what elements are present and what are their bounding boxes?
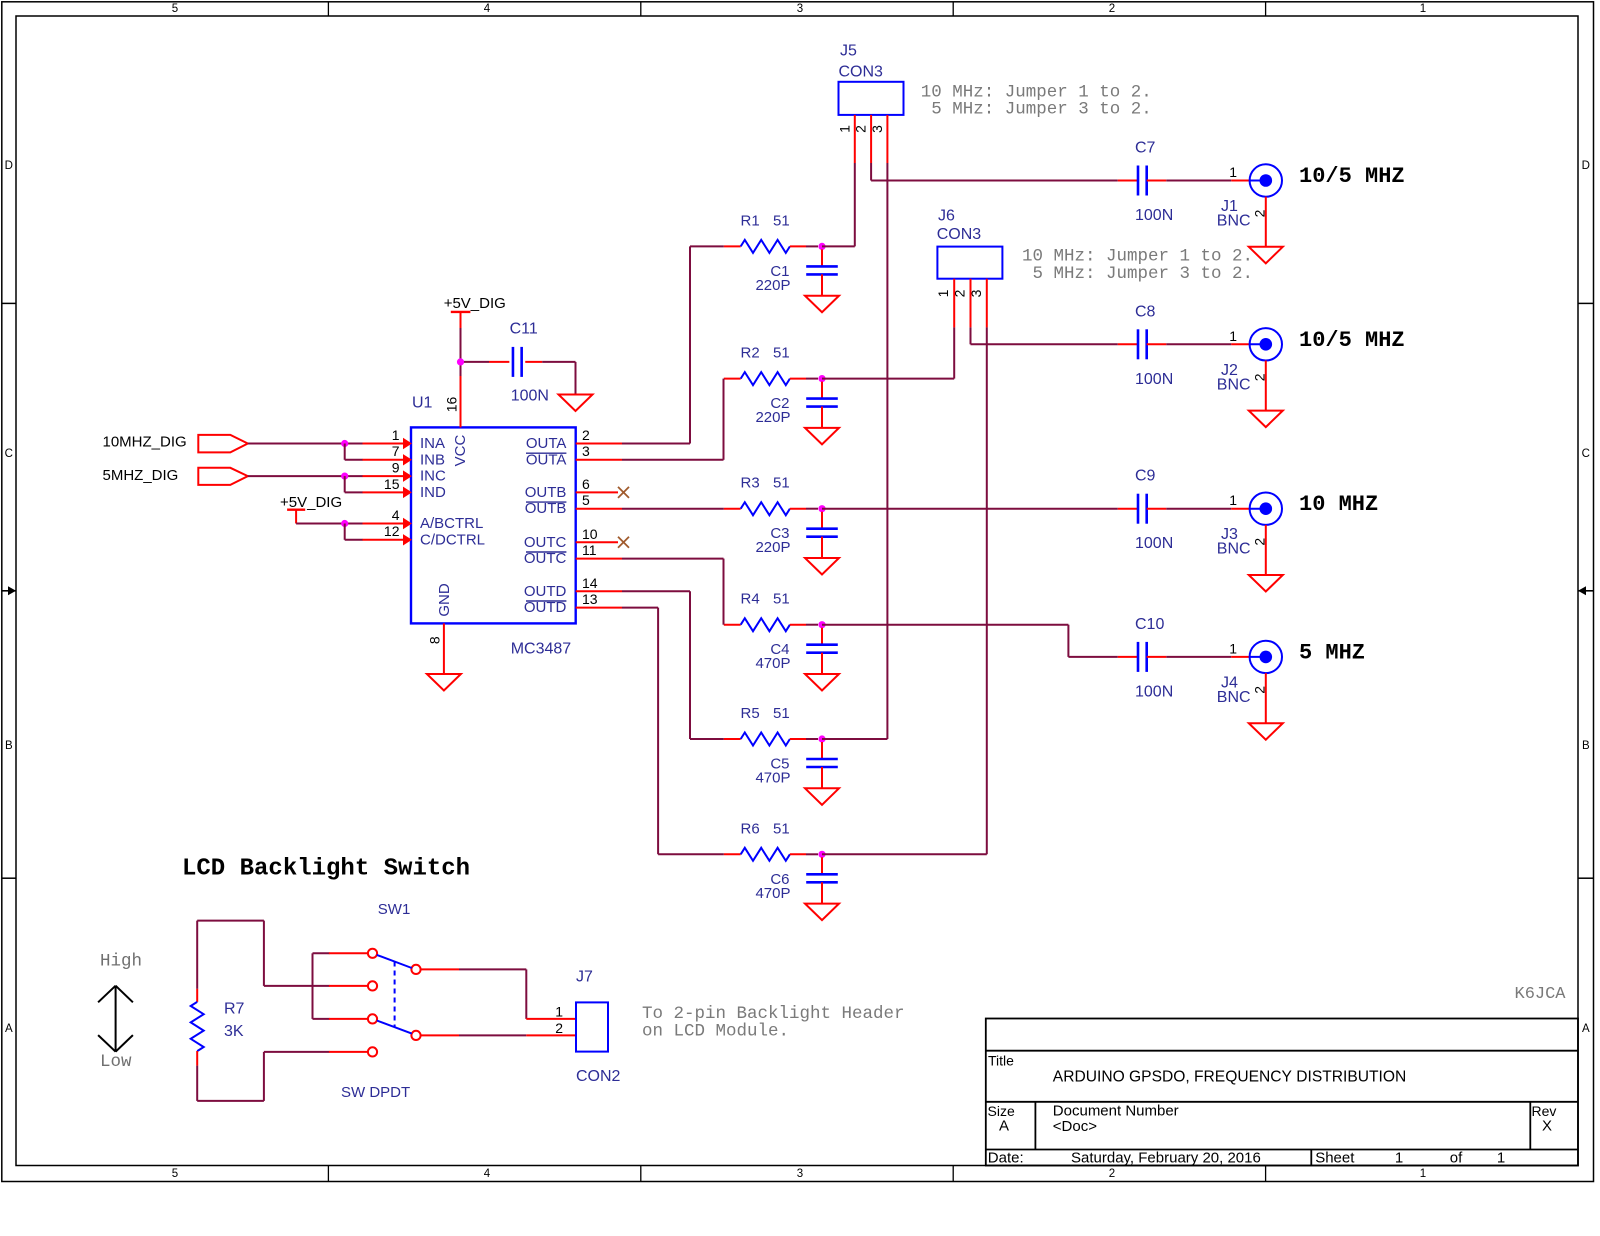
svg-text:GND: GND: [436, 583, 453, 617]
J3 labels: [1217, 526, 1251, 558]
wire R5 junction to J5 pin3: [822, 163, 887, 739]
svg-text:2: 2: [1109, 1168, 1115, 1180]
svg-text:SW1: SW1: [378, 901, 411, 918]
J4 pin 2 number: [1252, 686, 1268, 694]
junction +5V pin4: [341, 520, 348, 527]
title block: [986, 1019, 1578, 1167]
svg-text:+5V_DIG: +5V_DIG: [280, 494, 342, 511]
input port 5MHZ_DIG: [198, 468, 248, 485]
svg-text:10MHZ_DIG: 10MHZ_DIG: [103, 434, 187, 451]
svg-text:1: 1: [555, 1004, 563, 1020]
svg-text:on LCD Module.: on LCD Module.: [642, 1021, 789, 1041]
output label 10/5 MHZ J1: [1299, 164, 1405, 189]
J2 pin 2 number: [1252, 373, 1268, 381]
C11 reference label: [510, 321, 538, 338]
svg-text:A: A: [5, 1023, 13, 1035]
J5 reference label: [840, 42, 857, 59]
svg-text:5 MHz: Jumper 3 to 2.: 5 MHz: Jumper 3 to 2.: [1033, 264, 1254, 284]
wire pin5 to R3: [622, 508, 724, 510]
svg-text:1: 1: [1497, 1149, 1505, 1166]
resistor R6 51: [724, 848, 818, 861]
J1 pin 2 number: [1252, 209, 1268, 217]
wire C7 to J1: [1166, 180, 1249, 182]
ground at J3: [1249, 575, 1283, 592]
wire branch to pin12: [345, 524, 363, 540]
svg-text:16: 16: [444, 397, 460, 413]
wire C9 to J3: [1166, 508, 1249, 510]
svg-text:51: 51: [773, 345, 790, 362]
svg-text:D: D: [5, 160, 13, 172]
C1 labels: [755, 263, 790, 294]
wire switch E to J7 pin1: [459, 969, 576, 1019]
svg-text:3: 3: [797, 1168, 803, 1180]
junction +5V C11: [457, 358, 464, 365]
svg-text:470P: 470P: [755, 770, 790, 787]
J3 pin 1 number: [1229, 492, 1237, 508]
capacitor C10 100N: [1118, 642, 1167, 672]
resistor R4 51: [724, 618, 818, 631]
BNC connector J1: [1250, 164, 1282, 196]
svg-text:220P: 220P: [755, 539, 790, 556]
svg-text:ARDUINO GPSDO, FREQUENCY DISTR: ARDUINO GPSDO, FREQUENCY DISTRIBUTION: [1053, 1069, 1407, 1086]
SW1 reference label: [378, 901, 411, 918]
R7 labels: [224, 1001, 245, 1040]
U1 input pin stubs pins 1 7 9 15 4 12: [362, 439, 411, 545]
author note K6JCA: [1515, 985, 1567, 1004]
svg-text:10 MHZ: 10 MHZ: [1299, 492, 1378, 517]
power +5V_DIG symbol left: [287, 510, 305, 524]
svg-text:15: 15: [384, 476, 400, 492]
svg-text:2: 2: [582, 427, 590, 443]
svg-text:5 MHz: Jumper 3 to 2.: 5 MHz: Jumper 3 to 2.: [931, 100, 1152, 120]
wire 5MHZ_DIG to pin9: [248, 475, 363, 477]
svg-text:5: 5: [172, 1168, 178, 1180]
svg-text:OUTB: OUTB: [525, 484, 567, 501]
svg-text:C7: C7: [1135, 140, 1156, 157]
wire R6 junction to J6 pin3: [822, 327, 987, 854]
wire R4 junction to C10 row: [822, 625, 1118, 657]
svg-text:X: X: [1542, 1117, 1552, 1134]
svg-text:470P: 470P: [755, 885, 790, 902]
svg-text:1: 1: [836, 125, 852, 133]
svg-text:5 MHZ: 5 MHZ: [1299, 640, 1365, 665]
U1 pin 6 no-connect stub: [576, 487, 629, 498]
svg-text:1: 1: [1229, 640, 1237, 656]
BNC connector J4: [1250, 641, 1282, 673]
wire switch F to J7 pin2: [459, 1034, 576, 1036]
svg-text:CON3: CON3: [839, 64, 884, 81]
wire pin11 to R4: [622, 559, 724, 625]
svg-text:C8: C8: [1135, 303, 1156, 320]
svg-text:LCD Backlight Switch: LCD Backlight Switch: [182, 856, 470, 883]
C8 labels: [1135, 303, 1173, 388]
capacitor C9 100N: [1118, 494, 1167, 524]
svg-text:R1: R1: [741, 212, 760, 229]
svg-text:CON2: CON2: [576, 1068, 621, 1085]
ground at C2: [805, 428, 839, 445]
note jumper text for J6: [1022, 247, 1253, 285]
U1 pin 10 no-connect stub: [576, 537, 629, 548]
J5 pin stubs: [855, 115, 888, 163]
op-amp U1 MC3487 body: [411, 427, 576, 623]
BNC connector J3: [1250, 493, 1282, 525]
ground at C3: [805, 558, 839, 575]
capacitor C3 220P: [806, 512, 838, 558]
resistor R2 51: [724, 372, 818, 385]
svg-text:C: C: [5, 448, 13, 460]
ground at C4: [805, 674, 839, 691]
resistor R3 51: [724, 502, 818, 515]
wire R1 junction to J5 pin1: [822, 163, 855, 246]
svg-text:A/BCTRL: A/BCTRL: [420, 515, 483, 532]
junction 5MHZ: [341, 473, 348, 480]
svg-text:5MHZ_DIG: 5MHZ_DIG: [103, 467, 179, 484]
wire C11 to ground: [542, 362, 575, 395]
svg-text:51: 51: [773, 705, 790, 722]
wire pin3 to R2: [622, 379, 724, 460]
J1 pin 1 number: [1229, 164, 1237, 180]
svg-text:C/DCTRL: C/DCTRL: [420, 531, 485, 548]
BNC connector J2: [1250, 328, 1282, 360]
svg-text:51: 51: [773, 212, 790, 229]
section title LCD Backlight Switch: [182, 856, 470, 883]
svg-text:Document Number: Document Number: [1053, 1102, 1179, 1119]
J3 pin 2 number: [1252, 538, 1268, 546]
svg-text:J6: J6: [938, 207, 955, 224]
svg-text:1: 1: [1229, 492, 1237, 508]
svg-text:B: B: [1582, 740, 1590, 752]
svg-text:14: 14: [582, 575, 598, 591]
wire R7 bottom to switch D: [197, 1052, 329, 1101]
U1 pin name labels: [420, 434, 567, 616]
svg-text:1: 1: [392, 427, 400, 443]
wire J5 pin2 to C7 row: [871, 163, 1118, 181]
svg-text:3: 3: [968, 289, 984, 297]
svg-text:CON3: CON3: [937, 226, 982, 243]
capacitor C2 220P: [806, 382, 838, 428]
ground at J4: [1249, 723, 1283, 740]
svg-text:2: 2: [1109, 3, 1115, 15]
svg-text:R4: R4: [741, 591, 760, 608]
ground at C1: [805, 296, 839, 313]
svg-text:1: 1: [1229, 328, 1237, 344]
svg-text:A: A: [1582, 1023, 1590, 1035]
svg-text:8: 8: [427, 636, 443, 644]
R6 labels: [741, 820, 790, 837]
J6 reference label: [938, 207, 955, 224]
capacitor C1 220P: [806, 249, 838, 295]
svg-text:100N: 100N: [511, 388, 549, 405]
J5 value label CON3: [839, 64, 884, 81]
capacitor C11: [489, 347, 542, 377]
output label 10 MHZ J3: [1299, 492, 1378, 517]
U1 reference label: [412, 394, 433, 411]
svg-text:B: B: [5, 740, 13, 752]
input port 10MHZ_DIG: [198, 435, 248, 453]
R2 labels: [741, 345, 790, 362]
svg-text:3K: 3K: [224, 1023, 244, 1040]
svg-text:BNC: BNC: [1217, 689, 1251, 706]
J7 reference label: [576, 969, 593, 986]
svg-text:3: 3: [869, 125, 885, 133]
junction R4 C4: [818, 621, 825, 628]
resistor R7 3K: [191, 989, 204, 1066]
svg-text:J5: J5: [840, 42, 857, 59]
U1 pin 8 number: [427, 636, 443, 644]
svg-text:1: 1: [1420, 3, 1426, 15]
J1 ground drop: [1265, 197, 1267, 247]
R3 labels: [741, 475, 790, 492]
svg-text:R2: R2: [741, 345, 760, 362]
capacitor C5 470P: [806, 742, 838, 788]
C3 labels: [755, 525, 790, 556]
svg-text:C11: C11: [510, 321, 538, 338]
power +5V_DIG symbol top: [451, 312, 471, 330]
svg-text:R6: R6: [741, 820, 760, 837]
svg-text:OUTA: OUTA: [526, 435, 567, 452]
svg-text:C: C: [1582, 448, 1590, 460]
wire branch to pin7: [345, 444, 363, 460]
U1 pin 16 number: [444, 397, 460, 413]
svg-text:OUTC: OUTC: [524, 534, 567, 551]
output label 5 MHZ J4: [1299, 640, 1365, 665]
svg-text:5: 5: [172, 3, 178, 15]
C4 labels: [755, 641, 790, 672]
svg-text:51: 51: [773, 591, 790, 608]
svg-text:10/5 MHZ: 10/5 MHZ: [1299, 328, 1405, 353]
svg-text:+5V_DIG: +5V_DIG: [444, 295, 506, 312]
svg-text:10/5 MHZ: 10/5 MHZ: [1299, 164, 1405, 189]
svg-text:BNC: BNC: [1217, 541, 1251, 558]
svg-text:High: High: [100, 952, 142, 972]
J2 labels: [1217, 362, 1251, 394]
connector J6 CON3 body: [937, 247, 1002, 279]
svg-text:4: 4: [484, 3, 491, 15]
net label 10MHZ_DIG: [103, 434, 187, 451]
ground at C5: [805, 788, 839, 805]
svg-text:Date:: Date:: [988, 1149, 1024, 1166]
svg-text:INA: INA: [420, 435, 445, 452]
svg-text:220P: 220P: [755, 277, 790, 294]
wire 10MHZ_DIG to pin1: [248, 443, 363, 445]
C5 labels: [755, 756, 790, 787]
switch SW1 DPDT: [329, 949, 459, 1057]
svg-text:SW DPDT: SW DPDT: [341, 1084, 410, 1101]
svg-text:9: 9: [392, 460, 400, 476]
svg-text:D: D: [1582, 160, 1590, 172]
svg-text:R7: R7: [224, 1001, 245, 1018]
svg-text:U1: U1: [412, 394, 433, 411]
svg-text:10: 10: [582, 526, 598, 542]
U1 value label MC3487: [511, 641, 572, 658]
C2 labels: [755, 395, 790, 426]
svg-text:100N: 100N: [1135, 535, 1173, 552]
U1 pin 8 stub: [443, 623, 445, 674]
J5 pin numbers 1 2 3: [836, 125, 885, 133]
svg-text:J7: J7: [576, 969, 593, 986]
J4 ground drop: [1265, 673, 1267, 723]
J2 pin 1 number: [1229, 328, 1237, 344]
svg-text:C9: C9: [1135, 468, 1156, 485]
junction R5 C5: [818, 735, 825, 742]
svg-text:100N: 100N: [1135, 683, 1173, 700]
svg-text:100N: 100N: [1135, 207, 1173, 224]
wire +5V to pin16 and C11: [461, 328, 490, 376]
svg-text:3: 3: [797, 3, 803, 15]
wire pin2 to R1: [622, 246, 724, 443]
wire R2 junction to J6 pin1: [822, 327, 954, 378]
svg-text:6: 6: [582, 476, 590, 492]
junction R1 C1: [818, 243, 825, 250]
svg-text:1: 1: [1395, 1149, 1403, 1166]
capacitor C4 470P: [806, 628, 838, 674]
power +5V_DIG label left: [280, 494, 342, 511]
ground at J2: [1249, 411, 1283, 428]
svg-text:A: A: [999, 1117, 1009, 1134]
ground at J1: [1249, 247, 1283, 263]
capacitor C8 100N: [1118, 329, 1167, 359]
wire pin13 to R6: [622, 608, 724, 855]
svg-text:<Doc>: <Doc>: [1053, 1118, 1097, 1135]
svg-text:BNC: BNC: [1217, 376, 1251, 393]
resistor R1 51: [724, 240, 818, 253]
connector J7 CON2 body: [576, 1002, 608, 1051]
svg-text:2: 2: [853, 125, 869, 133]
wire J6 pin2 to C8 row: [971, 327, 1118, 344]
svg-text:11: 11: [582, 542, 597, 558]
svg-text:2: 2: [952, 289, 968, 297]
svg-text:IND: IND: [420, 484, 446, 501]
J1 labels: [1217, 198, 1251, 230]
label High: [100, 952, 142, 972]
note backlight header: [642, 1004, 905, 1041]
svg-text:5: 5: [582, 492, 590, 508]
svg-text:Sheet: Sheet: [1315, 1149, 1355, 1166]
svg-text:R3: R3: [741, 475, 760, 492]
power +5V_DIG label top: [444, 295, 506, 312]
wire tying switch contacts A and C: [313, 953, 330, 1019]
capacitor C7 100N: [1118, 166, 1167, 196]
C7 labels: [1135, 140, 1173, 225]
wire C10 to J4: [1166, 656, 1249, 658]
J4 labels: [1217, 674, 1251, 706]
net label 5MHZ_DIG: [103, 467, 179, 484]
svg-text:100N: 100N: [1135, 371, 1173, 388]
SW1 value label SW DPDT: [341, 1084, 410, 1101]
svg-text:12: 12: [384, 523, 400, 539]
svg-text:Title: Title: [988, 1053, 1014, 1069]
svg-text:2: 2: [555, 1020, 563, 1036]
svg-text:1: 1: [935, 289, 951, 297]
svg-text:51: 51: [773, 820, 790, 837]
U1 right pin numbers: [582, 427, 598, 607]
note jumper text for J5: [921, 82, 1152, 119]
svg-text:INB: INB: [420, 451, 445, 468]
connector J5 CON3 body: [839, 82, 904, 115]
svg-text:220P: 220P: [755, 409, 790, 426]
J3 ground drop: [1265, 525, 1267, 575]
wire pin14 to R5: [622, 591, 724, 739]
U1 pin 16 stub: [460, 375, 462, 427]
C6 labels: [755, 871, 790, 902]
J6 value label CON3: [937, 226, 982, 243]
svg-text:1: 1: [1420, 1168, 1426, 1180]
ground at C6: [805, 904, 839, 921]
U1 left pin numbers: [384, 427, 400, 539]
svg-text:BNC: BNC: [1217, 213, 1251, 230]
R5 labels: [741, 705, 790, 722]
wire +5V to pin4: [296, 523, 362, 525]
junction R6 C6: [818, 851, 825, 858]
wire C8 to J2: [1166, 343, 1249, 345]
resistor R5 51: [724, 733, 818, 746]
J6 pin numbers 1 2 3: [935, 289, 984, 297]
high-low double arrow: [98, 986, 133, 1052]
ground at C11: [559, 395, 593, 412]
svg-text:4: 4: [484, 1168, 491, 1180]
wire R3 junction to C9 row: [822, 508, 1118, 510]
svg-text:51: 51: [773, 475, 790, 492]
svg-text:R5: R5: [741, 705, 760, 722]
wire branch to pin15: [345, 476, 363, 492]
ground at U1 pin 8: [427, 674, 461, 691]
svg-text:Saturday, February 20, 2016: Saturday, February 20, 2016: [1071, 1149, 1261, 1166]
svg-text:3: 3: [582, 443, 590, 459]
svg-text:C10: C10: [1135, 616, 1164, 633]
svg-text:Low: Low: [100, 1052, 132, 1072]
label Low: [100, 1052, 132, 1072]
svg-text:K6JCA: K6JCA: [1515, 985, 1567, 1004]
capacitor C6 470P: [806, 857, 838, 903]
svg-text:INC: INC: [420, 468, 446, 485]
svg-text:470P: 470P: [755, 655, 790, 672]
junction R2 C2: [818, 375, 825, 382]
R1 labels: [741, 212, 790, 229]
R4 labels: [741, 591, 790, 608]
svg-text:MC3487: MC3487: [511, 641, 572, 658]
svg-text:4: 4: [392, 507, 400, 523]
svg-text:13: 13: [582, 591, 598, 607]
wire R7 top to switch B: [197, 921, 329, 989]
C11 value label 100N: [511, 388, 549, 405]
J7 pin numbers: [555, 1004, 563, 1036]
svg-text:of: of: [1450, 1149, 1463, 1166]
C9 labels: [1135, 468, 1173, 553]
U1 output pin stubs pins 2 3 5 11 14 13: [576, 444, 622, 608]
svg-text:OUTD: OUTD: [524, 583, 567, 600]
svg-text:VCC: VCC: [452, 434, 469, 466]
J7 value label CON2: [576, 1068, 621, 1085]
J2 ground drop: [1265, 361, 1267, 411]
svg-text:7: 7: [392, 443, 400, 459]
C10 labels: [1135, 616, 1173, 701]
output label 10/5 MHZ J2: [1299, 328, 1405, 353]
junction R3 C3: [818, 505, 825, 512]
J6 pin stubs: [954, 279, 987, 328]
svg-text:1: 1: [1229, 164, 1237, 180]
J4 pin 1 number: [1229, 640, 1237, 656]
junction 10MHZ: [341, 440, 348, 447]
